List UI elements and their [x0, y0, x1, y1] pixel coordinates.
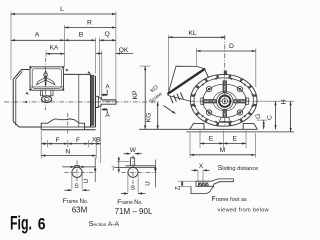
- svg-text:H: H: [280, 99, 287, 104]
- svg-text:A: A: [105, 112, 110, 119]
- svg-text:Z: Z: [175, 186, 182, 190]
- svg-text:F: F: [76, 137, 80, 144]
- svg-text:L: L: [60, 6, 64, 13]
- svg-text:KP: KP: [132, 90, 139, 100]
- svg-text:T: T: [111, 167, 115, 173]
- svg-text:63M: 63M: [72, 205, 88, 214]
- svg-text:X: X: [199, 163, 204, 170]
- svg-text:E: E: [233, 136, 238, 143]
- svg-text:6: 6: [38, 216, 46, 234]
- svg-text:Frame foot as: Frame foot as: [212, 196, 248, 203]
- svg-text:A: A: [105, 83, 110, 90]
- svg-text:U: U: [145, 181, 152, 185]
- svg-text:U: U: [83, 179, 90, 183]
- svg-text:A: A: [35, 32, 40, 39]
- svg-text:F: F: [56, 137, 60, 144]
- svg-text:R: R: [87, 20, 92, 27]
- svg-text:KA: KA: [50, 45, 59, 52]
- svg-text:KG: KG: [146, 113, 153, 123]
- svg-text:D: D: [229, 43, 234, 50]
- svg-text:S: S: [131, 185, 136, 192]
- svg-text:71M – 90L: 71M – 90L: [115, 207, 153, 216]
- svg-text:Q: Q: [105, 31, 110, 38]
- svg-text:M: M: [220, 147, 226, 154]
- svg-text:E: E: [209, 136, 214, 143]
- svg-text:N: N: [65, 148, 70, 155]
- svg-text:S: S: [74, 183, 79, 190]
- svg-text:G: G: [255, 114, 262, 119]
- svg-text:W: W: [130, 147, 137, 154]
- svg-text:Frame No.: Frame No.: [117, 199, 143, 206]
- svg-text:Fig.: Fig.: [10, 214, 32, 234]
- svg-text:QK: QK: [119, 47, 129, 54]
- svg-text:B: B: [79, 32, 84, 39]
- svg-text:C: C: [266, 115, 273, 120]
- svg-text:Frame No.: Frame No.: [63, 198, 89, 205]
- svg-text:KL: KL: [188, 30, 197, 37]
- svg-text:viewed from below: viewed from below: [218, 208, 270, 214]
- svg-text:XB: XB: [92, 137, 100, 144]
